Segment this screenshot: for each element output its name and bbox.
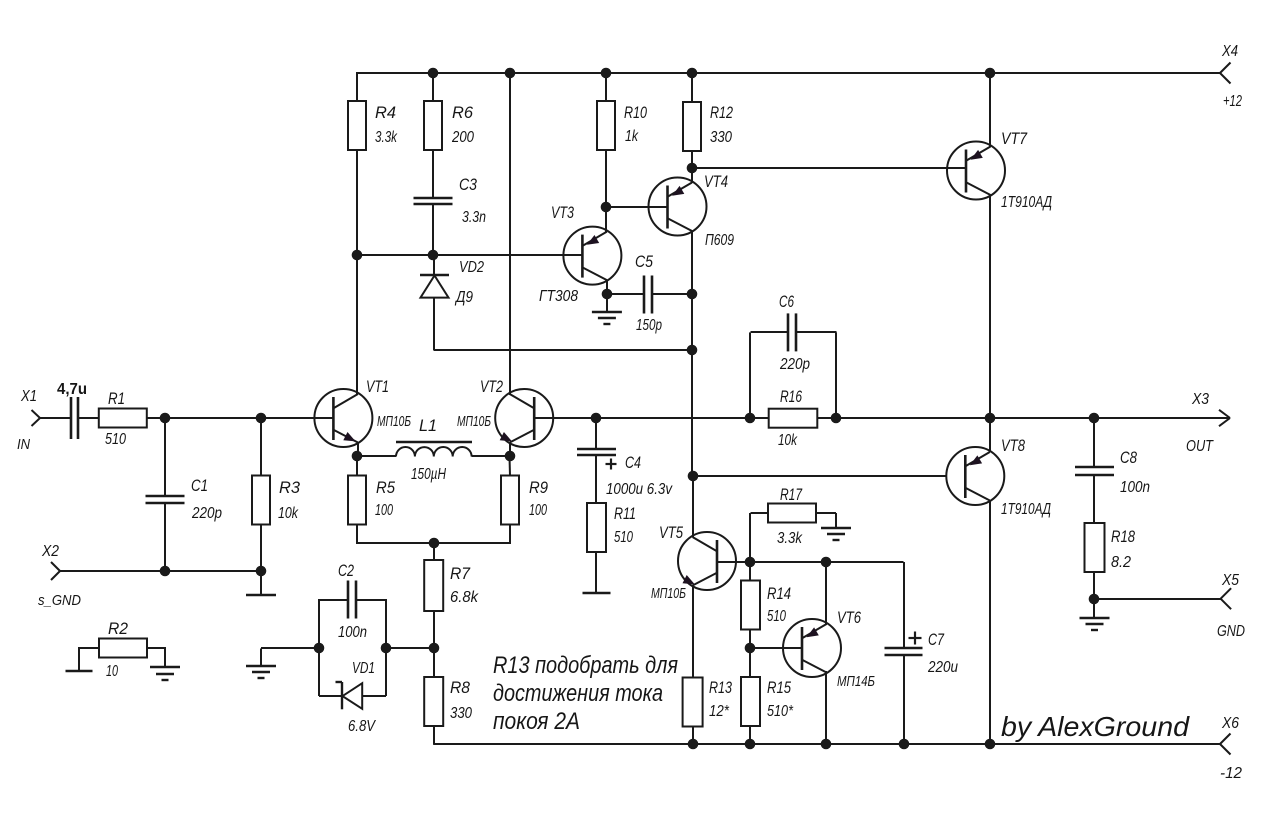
svg-text:6.8k: 6.8k: [450, 589, 479, 606]
capacitor C8: [1075, 449, 1150, 496]
resistor R1: [99, 390, 147, 448]
transistor VT8: [946, 437, 1051, 518]
wire X1 to C(4,7u): [40, 417, 71, 419]
transistor VT2: [457, 378, 553, 447]
capacitor 4,7u: [57, 381, 87, 439]
wire R15 bottom lead: [749, 726, 751, 745]
node X5/gnd: [1089, 594, 1100, 605]
node C2 loop left: [314, 643, 325, 654]
node rail/R15: [745, 739, 756, 750]
wire R14 bottom lead: [749, 630, 751, 649]
resistor R14: [741, 581, 791, 630]
wire R7 top lead: [433, 543, 435, 560]
svg-text:220p: 220p: [191, 505, 222, 522]
svg-text:X4: X4: [1221, 43, 1238, 60]
transistor VT1: [314, 378, 411, 447]
wire C5 right lead: [653, 293, 693, 295]
wire R6 to C3: [432, 150, 434, 197]
author credit: [1001, 711, 1191, 742]
node top rail / VT7: [985, 68, 996, 79]
capacitor C2: [338, 562, 367, 641]
svg-text:150µH: 150µH: [411, 466, 446, 483]
wire R10 to node B: [605, 150, 607, 207]
node VD2 wire / VT4 emitter: [687, 345, 698, 356]
node C1/sGND: [160, 566, 171, 577]
wire to X5: [1095, 598, 1221, 600]
svg-text:VT3: VT3: [551, 204, 575, 222]
svg-text:R8: R8: [450, 679, 471, 697]
node VT3 emitter / C5: [602, 289, 613, 300]
node C1 tap: [160, 413, 171, 424]
capacitor C1: [146, 477, 223, 522]
wire -12 bottom rail: [434, 743, 1220, 745]
svg-text:4,7u: 4,7u: [57, 381, 87, 398]
wire R2 left lead: [79, 647, 99, 671]
wire VT6 emitter down: [825, 671, 827, 745]
wire R3 bottom lead: [260, 525, 262, 572]
wire R10 top lead: [605, 73, 607, 101]
resistor R11: [587, 503, 636, 552]
svg-text:R7: R7: [450, 565, 471, 583]
resistor R16: [769, 388, 818, 449]
wire X2 to R3: [60, 570, 261, 572]
svg-text:C6: C6: [779, 293, 795, 311]
svg-text:510: 510: [614, 529, 633, 546]
svg-text:L1: L1: [419, 417, 437, 435]
wire VT7 emitter to top rail: [989, 73, 991, 147]
wire base row to C7: [751, 561, 904, 563]
svg-text:VD2: VD2: [459, 259, 484, 276]
svg-text:s_GND: s_GND: [38, 592, 81, 609]
wire gnd drop: [1093, 599, 1095, 618]
svg-text:C2: C2: [338, 562, 354, 580]
ground R17: [821, 528, 851, 540]
node VT6 collector top: [821, 557, 832, 568]
resistor R2: [99, 620, 147, 680]
wire cap to R1: [78, 417, 99, 419]
svg-text:МП10Б: МП10Б: [651, 585, 686, 602]
wire C1 top lead: [164, 418, 166, 496]
svg-text:OUT: OUT: [1186, 438, 1214, 455]
resistor R5: [348, 476, 396, 525]
svg-text:10: 10: [106, 663, 118, 680]
ground under C2 wire: [246, 666, 276, 678]
svg-text:10k: 10k: [278, 505, 299, 522]
svg-text:12*: 12*: [709, 703, 730, 720]
transistor VT3: [539, 204, 621, 305]
svg-text:VT6: VT6: [837, 609, 862, 627]
inductor L1: [396, 417, 472, 483]
capacitor C4 (polar): [577, 449, 673, 498]
wire VT3 emitter to ground: [606, 295, 608, 312]
wire R14 top lead: [749, 562, 751, 581]
svg-text:1Т910АД: 1Т910АД: [1001, 194, 1052, 211]
wire C2 loop left side: [318, 599, 320, 696]
svg-text:200: 200: [451, 129, 474, 146]
svg-text:100: 100: [529, 502, 547, 519]
resistor R3: [252, 476, 301, 525]
svg-text:C4: C4: [625, 454, 641, 472]
wire C7 bottom lead: [903, 655, 905, 745]
svg-text:МП10Б: МП10Б: [457, 413, 491, 430]
wire R1 to VT1 base: [147, 417, 333, 419]
wire R8 bottom lead: [433, 726, 435, 745]
wire C7 top lead: [903, 562, 905, 648]
svg-text:C1: C1: [191, 477, 208, 495]
transistor VT5: [651, 524, 736, 602]
node A (R4/VD2 row): [352, 250, 363, 261]
wire node A to VT3 base: [357, 254, 582, 256]
wire to VT8 base: [693, 475, 946, 477]
terminal X4: [1220, 43, 1242, 110]
svg-text:МП10Б: МП10Б: [377, 413, 411, 430]
svg-text:R3: R3: [279, 479, 301, 497]
capacitor C6: [779, 293, 810, 373]
wire VT8 collector up: [989, 418, 991, 452]
svg-text:220u: 220u: [927, 659, 958, 676]
svg-text:100: 100: [375, 502, 393, 519]
resistor R9: [501, 476, 548, 525]
terminal X6: [1220, 715, 1242, 782]
svg-text:R14: R14: [767, 585, 791, 603]
svg-text:R9: R9: [529, 479, 548, 497]
svg-text:П609: П609: [705, 232, 734, 249]
capacitor C7 (polar): [885, 631, 959, 676]
node C3/VD2: [428, 250, 439, 261]
wire L1 to VT2 emitter: [472, 455, 510, 457]
node R14/R15/VT6 base: [745, 643, 756, 654]
svg-text:3.3k: 3.3k: [375, 129, 398, 146]
svg-text:X5: X5: [1221, 572, 1239, 589]
svg-text:150p: 150p: [636, 317, 662, 334]
node rail/VT6: [821, 739, 832, 750]
wire VT1 collector riser: [356, 255, 358, 395]
wire VT2 collector to top rail: [509, 73, 511, 395]
svg-text:достижения тока: достижения тока: [493, 680, 663, 707]
svg-text:100n: 100n: [338, 624, 367, 641]
svg-text:510: 510: [767, 608, 786, 625]
svg-text:VT5: VT5: [659, 524, 684, 542]
svg-text:VT4: VT4: [704, 173, 728, 191]
wire R3 top lead: [260, 418, 262, 476]
svg-text:R6: R6: [452, 104, 474, 122]
note text R13: [493, 652, 678, 735]
node R3 tap: [256, 413, 267, 424]
transistor VT7: [947, 130, 1052, 211]
ground bar under R11: [583, 592, 611, 594]
ground bar R2 left: [66, 670, 93, 672]
svg-text:покоя 2А: покоя 2А: [493, 708, 580, 735]
node C2 loop right: [381, 643, 392, 654]
svg-text:-12: -12: [1220, 765, 1242, 782]
svg-text:C5: C5: [635, 253, 654, 271]
node top rail / VT2 collector: [505, 68, 516, 79]
resistor R15: [741, 677, 794, 726]
wire VT4 emitter column: [691, 231, 693, 476]
wire +12 top rail: [357, 72, 1220, 74]
terminal X3 (arrow): [1186, 391, 1230, 455]
wire R4 to node A: [356, 150, 358, 256]
svg-text:R1: R1: [108, 390, 125, 408]
node R16 right: [831, 413, 842, 424]
svg-text:R18: R18: [1111, 528, 1136, 546]
wire R12 top lead: [691, 73, 693, 102]
wire R2 right lead: [147, 647, 165, 667]
wire C2 loop right side: [385, 599, 387, 696]
svg-text:R12: R12: [710, 104, 733, 122]
svg-text:510*: 510*: [767, 703, 794, 720]
node rail/VT8: [985, 739, 996, 750]
terminal X5: [1217, 572, 1245, 640]
svg-text:Д9: Д9: [454, 289, 473, 306]
wire R17 right lead: [817, 513, 837, 528]
ground X5: [1080, 618, 1110, 630]
svg-text:3.3k: 3.3k: [777, 530, 803, 547]
svg-text:6.8V: 6.8V: [348, 718, 376, 735]
wire node B to VT4 base: [606, 206, 667, 208]
svg-text:by AlexGround: by AlexGround: [1001, 711, 1191, 742]
wire C6 loop right: [835, 332, 837, 418]
resistor R17: [768, 486, 816, 547]
svg-text:C3: C3: [459, 176, 478, 194]
wire VT6 base lead: [751, 647, 803, 649]
wire VT3 collector riser: [605, 207, 607, 232]
wire C4 to R11: [595, 456, 597, 504]
ground R2 right: [150, 667, 180, 680]
node VT4 emitter / VT8 base: [688, 471, 699, 482]
wire R5 bottom lead: [356, 525, 358, 544]
ground bar under R3: [246, 594, 276, 596]
wire R7 bottom lead: [433, 611, 435, 649]
svg-text:220p: 220p: [779, 356, 810, 373]
svg-text:R2: R2: [108, 620, 128, 638]
svg-text:X6: X6: [1221, 715, 1239, 732]
svg-text:8.2: 8.2: [1111, 554, 1131, 571]
svg-text:R11: R11: [614, 505, 636, 523]
wire VT2 collector drop: [509, 442, 511, 457]
svg-text:VT2: VT2: [480, 378, 503, 396]
svg-text:R10: R10: [624, 104, 648, 122]
ground VT3 emitter: [592, 312, 622, 324]
svg-text:330: 330: [710, 129, 732, 146]
wire VT2 base to OUT rail: [534, 417, 597, 419]
wire VD1 bottom-left: [319, 695, 342, 697]
wire R8 top lead: [433, 648, 435, 678]
svg-text:GND: GND: [1217, 623, 1245, 640]
svg-text:C8: C8: [1120, 449, 1138, 467]
wire R12 to node C: [691, 150, 693, 169]
terminal X2: [38, 543, 81, 609]
terminal X1: [17, 388, 40, 453]
resistor R12: [683, 102, 733, 151]
wire R15 top lead: [749, 648, 751, 678]
wire R9 top lead: [509, 457, 512, 476]
node rail/R13: [688, 739, 699, 750]
wire C6 loop left: [749, 332, 751, 418]
svg-text:100n: 100n: [1120, 479, 1150, 496]
wire R5-R9 join: [356, 542, 511, 544]
wire loop to R7 node: [386, 647, 434, 649]
svg-text:VT8: VT8: [1001, 437, 1026, 455]
svg-text:R4: R4: [375, 104, 396, 122]
svg-text:VT1: VT1: [366, 378, 389, 396]
resistor R8: [424, 677, 472, 726]
svg-text:IN: IN: [17, 436, 30, 453]
node R16 left: [745, 413, 756, 424]
wire R3 node to bar: [260, 571, 262, 595]
wire R18 bottom lead: [1093, 571, 1095, 599]
wire R9 bottom lead: [509, 525, 511, 544]
wire C8 top lead: [1093, 418, 1095, 467]
wire OUT rail: [597, 417, 1231, 419]
svg-text:1k: 1k: [625, 128, 639, 145]
wire C6 top-right: [796, 331, 837, 333]
wire VT5 collector: [692, 476, 694, 537]
node top rail / R10: [601, 68, 612, 79]
svg-text:330: 330: [450, 705, 472, 722]
capacitor C3: [414, 176, 487, 226]
node top rail / R6: [428, 68, 439, 79]
node C (R12/VT4 coll/VT7 base): [687, 163, 698, 174]
svg-text:R13: R13: [709, 679, 733, 697]
wire VT6 collector up: [825, 562, 827, 625]
diode VD2: [420, 255, 484, 350]
wire C6 top-left: [751, 331, 789, 333]
node VT5 base / R17 / R14: [745, 557, 756, 568]
wire C2 loop top-right: [356, 599, 386, 601]
transistor VT6: [783, 609, 875, 690]
wire R13 bottom lead: [692, 727, 694, 745]
node R7 top: [429, 538, 440, 549]
node VT8 collector: [985, 413, 996, 424]
svg-text:R13 подобрать для: R13 подобрать для: [493, 652, 678, 679]
wire C5 left lead: [607, 293, 645, 295]
wire R6 top lead: [432, 73, 434, 101]
node C8 tap: [1089, 413, 1100, 424]
svg-text:C7: C7: [928, 631, 945, 649]
node VT2 emitter: [505, 451, 516, 462]
node top rail / R12: [687, 68, 698, 79]
node B (R10/VT3/VT4 base): [601, 202, 612, 213]
wire VD2 to VT4 emitter column: [434, 349, 693, 351]
svg-text:10k: 10k: [778, 432, 798, 449]
transistor VT4: [649, 173, 735, 249]
node VT1 emitter: [352, 451, 363, 462]
svg-text:R5: R5: [376, 479, 396, 497]
svg-text:+12: +12: [1223, 93, 1242, 110]
svg-text:VD1: VD1: [352, 660, 375, 677]
wire VT3 emitter drop: [606, 280, 608, 295]
svg-text:VT7: VT7: [1001, 130, 1028, 148]
svg-text:X1: X1: [20, 388, 37, 405]
diode VD1 (zener 6.8V): [336, 660, 377, 735]
wire R4 top lead: [356, 72, 358, 101]
wire C4 top lead: [595, 418, 597, 449]
svg-text:X3: X3: [1191, 391, 1209, 408]
svg-text:1000u 6.3v: 1000u 6.3v: [606, 481, 673, 498]
resistor R10: [597, 101, 648, 150]
wire VT5 base lead: [717, 561, 751, 563]
resistor R7: [424, 560, 479, 611]
svg-text:R17: R17: [780, 486, 803, 504]
wire emitter to L1: [357, 455, 396, 457]
svg-text:3.3n: 3.3n: [462, 209, 486, 226]
wire ground to C2 loop: [261, 648, 319, 666]
svg-text:X2: X2: [41, 543, 59, 560]
capacitor C5: [635, 253, 662, 334]
wire C8 to R18: [1093, 475, 1095, 523]
wire VT7 collector to OUT rail: [989, 195, 991, 418]
node R7/R8/C2: [429, 643, 440, 654]
wire C2 loop top-left: [319, 599, 348, 601]
wire R5 top lead: [356, 457, 358, 476]
node R3/sGND: [256, 566, 267, 577]
svg-text:R15: R15: [767, 679, 792, 697]
wire R17 left lead: [750, 513, 768, 562]
wire R11 bottom lead: [595, 552, 597, 593]
wire node C to VT7 base: [692, 167, 965, 169]
wire VT5 emitter drop: [692, 585, 694, 678]
resistor R13: [683, 678, 733, 727]
svg-text:МП14Б: МП14Б: [837, 673, 875, 690]
wire C3 to node: [432, 205, 434, 257]
wire C1 bottom lead: [164, 503, 166, 571]
wire VD1 bottom-right: [362, 695, 386, 697]
svg-text:R16: R16: [780, 388, 803, 406]
node C4 top: [591, 413, 602, 424]
resistor R4: [348, 101, 398, 150]
wire VT1 emitter drop: [357, 442, 359, 457]
node rail/C7: [899, 739, 910, 750]
svg-text:ГТ308: ГТ308: [539, 288, 578, 305]
resistor R18: [1085, 523, 1136, 572]
svg-text:1Т910АД: 1Т910АД: [1001, 501, 1051, 518]
wire VT4 collector stub: [691, 169, 693, 184]
resistor R6: [424, 101, 474, 150]
wire VT8 emitter down: [989, 501, 991, 745]
node C5 / VT4 emitter: [687, 289, 698, 300]
svg-text:510: 510: [105, 431, 126, 448]
